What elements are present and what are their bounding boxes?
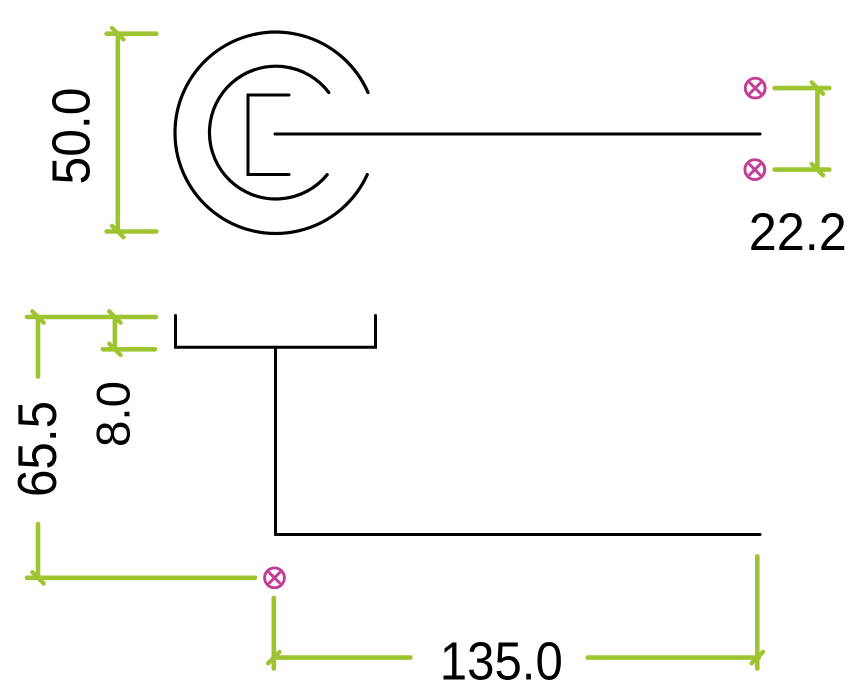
svg-text:8.0: 8.0 (87, 381, 140, 447)
dimension 50.0 top extension (107, 31, 157, 36)
lever bar (top view) (275, 133, 760, 136)
dimension 135.0 (268, 556, 763, 668)
dimension 50.0 line (107, 28, 157, 237)
svg-text:135.0: 135.0 (440, 632, 563, 692)
screw symbol side view (265, 568, 285, 588)
dimension 65.5 (27, 311, 255, 583)
rose outer circle (top view) (175, 32, 368, 233)
svg-text:22.2: 22.2 (749, 203, 847, 262)
rose profile (side view) (176, 316, 376, 348)
tick bottom (112, 226, 123, 237)
rose inner circle (top view) (209, 66, 328, 199)
svg-text:50.0: 50.0 (42, 88, 102, 185)
lever neck (side view) (274, 347, 277, 534)
svg-text:65.5: 65.5 (6, 401, 68, 497)
screw symbol top right upper (745, 78, 765, 98)
dimension 22.2 (775, 82, 830, 175)
tick top (112, 28, 123, 39)
screw symbol top right lower (745, 160, 765, 180)
dimension 8.0 (103, 311, 155, 355)
spindle bracket (248, 95, 289, 175)
dimension 50.0 bottom extension (107, 229, 157, 234)
lever bar (side view) (276, 533, 761, 536)
